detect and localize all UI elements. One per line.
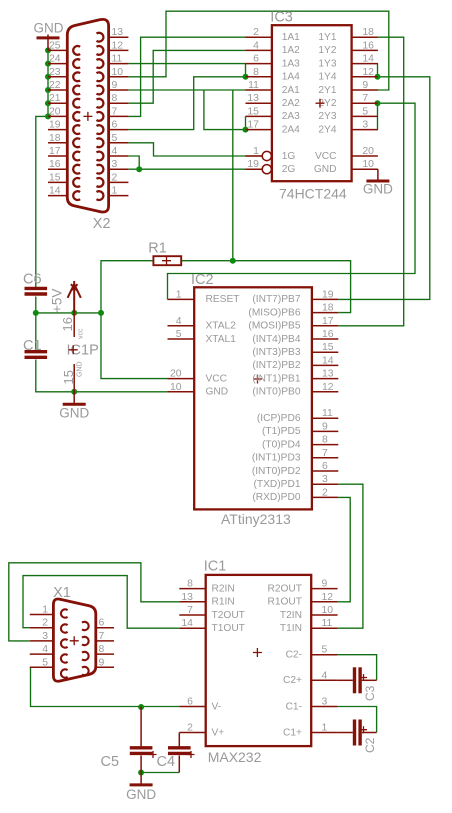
junction 1Y4 — [375, 74, 381, 80]
IC3 pin 3 2Y4 — [352, 129, 378, 131]
junction X2 p24 — [45, 61, 51, 67]
ground IC1P — [63, 403, 86, 406]
svg-text:(T1)PD5: (T1)PD5 — [262, 426, 301, 437]
X1 pin 3 — [30, 640, 54, 642]
svg-text:C2+: C2+ — [283, 675, 302, 686]
junction rail +5V — [71, 310, 77, 316]
IC3 pin 14 1Y3 — [352, 63, 378, 65]
X1 pin 8 — [96, 653, 114, 655]
X1 pin 2 — [30, 627, 54, 629]
X2 pin 19 — [48, 129, 67, 131]
svg-text:GND: GND — [59, 406, 89, 421]
IC1 pin 4 C2+ — [311, 679, 337, 681]
svg-text:C1+: C1+ — [283, 727, 302, 738]
X2 pin 21 — [48, 102, 67, 104]
svg-text:19: 19 — [49, 120, 61, 131]
svg-text:10: 10 — [362, 159, 374, 170]
svg-text:1A2: 1A2 — [282, 45, 300, 56]
connector X1 body — [53, 599, 95, 681]
IC2 pin 18 (MISO)PB6 — [312, 312, 338, 314]
C4 stem up to V+ — [178, 733, 180, 748]
svg-text:R2OUT: R2OUT — [267, 583, 302, 594]
C5 stem from V- — [140, 707, 142, 747]
C2 left stem — [338, 732, 353, 734]
svg-text:18: 18 — [322, 303, 334, 314]
svg-text:4: 4 — [112, 146, 118, 157]
IC2 pin 8 (T0)PD4 — [312, 444, 338, 446]
svg-text:20: 20 — [362, 146, 374, 157]
svg-text:1Y3: 1Y3 — [318, 58, 336, 69]
wire X2 pin7 to 1A1 — [128, 37, 245, 116]
IC1 pin 14 T1OUT — [179, 627, 205, 629]
svg-text:15: 15 — [61, 370, 76, 384]
IC2 pin 7 (INT1)PD3 — [312, 457, 338, 459]
IC U IC1 MAX232 body — [206, 575, 312, 746]
wire X2 pin20 to C6 — [36, 116, 48, 288]
origin cross X1 — [70, 636, 79, 645]
IC3 pin 11 2A1 — [246, 89, 272, 91]
wire R1 left to +5V rail — [101, 261, 153, 313]
svg-text:7: 7 — [362, 93, 368, 104]
svg-text:1Y4: 1Y4 — [318, 72, 336, 83]
svg-text:1: 1 — [42, 605, 48, 616]
X2 pin 9 — [109, 89, 129, 91]
wire X2 pin6 to 1A4 — [128, 77, 245, 130]
junction V- C5 — [138, 704, 144, 710]
svg-text:1G: 1G — [282, 151, 296, 162]
wire RESET 2Y2 to IC2 pin1 — [168, 103, 416, 299]
svg-text:R1IN: R1IN — [212, 597, 235, 608]
svg-text:11: 11 — [322, 618, 333, 629]
IC3 pin 2 1A1 — [246, 36, 272, 38]
IC3 pin 20 VCC — [352, 155, 378, 157]
svg-text:C1-: C1- — [286, 701, 302, 712]
svg-text:17: 17 — [49, 146, 61, 157]
X1 pin 9 — [96, 666, 114, 668]
svg-text:6: 6 — [322, 461, 328, 472]
C5 lower stem — [140, 756, 142, 773]
IC2 pin 9 (T1)PD5 — [312, 430, 338, 432]
wire VCC to IC2 pin20 — [101, 313, 168, 379]
IC2 pin 15 (INT3)PB3 — [312, 351, 338, 353]
C3 plus mark — [360, 674, 367, 681]
IC3 pin 7 2Y2 — [352, 102, 378, 104]
svg-text:IC2: IC2 — [191, 272, 214, 288]
connector X2 body — [67, 19, 108, 212]
svg-text:7: 7 — [322, 448, 328, 459]
svg-text:C3: C3 — [363, 685, 377, 701]
svg-text:13: 13 — [181, 592, 193, 603]
X1 pin 7 — [96, 640, 114, 642]
svg-text:+5V: +5V — [49, 289, 64, 313]
svg-text:X1: X1 — [53, 585, 71, 601]
svg-text:4: 4 — [322, 670, 328, 681]
IC1 pin 2 V+ — [179, 732, 205, 734]
svg-text:1Y1: 1Y1 — [318, 32, 336, 43]
X2 pin 12 — [109, 49, 129, 51]
svg-text:17: 17 — [247, 120, 259, 131]
svg-text:18: 18 — [362, 27, 374, 38]
svg-text:(ICP)PD6: (ICP)PD6 — [257, 413, 301, 424]
svg-text:IC1P: IC1P — [67, 343, 99, 359]
svg-text:X2: X2 — [93, 216, 111, 232]
svg-text:19: 19 — [322, 289, 334, 300]
origin cross IC3 — [316, 99, 325, 108]
svg-text:11: 11 — [248, 80, 259, 91]
junction 1A4 — [243, 74, 249, 80]
C3 left stem — [338, 679, 353, 681]
svg-text:9: 9 — [99, 657, 105, 668]
IC U IC2 ATtiny2313 body — [194, 287, 312, 509]
X2 pin 10 — [109, 76, 129, 78]
X2 pin 4 — [109, 155, 129, 157]
C4 plus mark — [188, 751, 195, 758]
origin cross IC1 — [253, 648, 262, 657]
svg-text:7: 7 — [112, 106, 118, 117]
svg-text:2: 2 — [253, 27, 259, 38]
IC1 pin 10 T2IN — [311, 614, 337, 616]
gnd pin X2 — [47, 35, 49, 51]
wire SCK 1Y4 to IC2 pin19 — [338, 77, 430, 300]
wire X2 pin3 to 2G — [128, 168, 261, 170]
origin cross R1 — [162, 256, 171, 265]
IC1 pin 8 R2IN — [179, 588, 205, 590]
junction 2G net — [136, 166, 142, 172]
IC1 pin 12 R1OUT — [311, 601, 337, 603]
IC U IC3 74HCT244 body — [272, 25, 352, 181]
wire TXD PD1 to T1IN — [338, 484, 363, 628]
svg-text:12: 12 — [322, 592, 334, 603]
ground bottom — [130, 783, 153, 786]
wire C3 to C2- loop — [338, 655, 377, 681]
svg-text:XTAL2: XTAL2 — [206, 321, 237, 332]
svg-text:14: 14 — [322, 355, 334, 366]
wire branch to 2A4 — [204, 90, 246, 130]
svg-text:(MOSI)PB5: (MOSI)PB5 — [248, 321, 300, 332]
IC2 pin 10 GND — [168, 391, 195, 393]
X1 pin 5 — [30, 666, 54, 668]
svg-text:2: 2 — [112, 172, 118, 183]
svg-text:16: 16 — [60, 317, 75, 331]
wire X2 pin10 over top to 2Y1 — [128, 11, 388, 90]
inverter bubble 1G — [262, 151, 271, 160]
IC2 pin 4 XTAL2 — [168, 325, 195, 327]
svg-text:(INT3)PB3: (INT3)PB3 — [252, 347, 300, 358]
capacitor C2 — [353, 720, 356, 746]
X2 pin 11 — [109, 63, 129, 65]
svg-text:3: 3 — [42, 631, 48, 642]
svg-text:12: 12 — [322, 382, 334, 393]
svg-text:2A1: 2A1 — [282, 85, 300, 96]
X2 pin 24 — [48, 63, 67, 65]
svg-text:13: 13 — [112, 27, 124, 38]
svg-text:20: 20 — [170, 369, 182, 380]
svg-text:11: 11 — [112, 54, 123, 65]
svg-text:23: 23 — [49, 67, 61, 78]
wire 1A3 to 1A4 tie — [245, 64, 247, 77]
svg-text:T1OUT: T1OUT — [212, 623, 245, 634]
svg-text:T2IN: T2IN — [280, 610, 302, 621]
junction X2 p22 — [45, 87, 51, 93]
svg-text:9: 9 — [322, 579, 328, 590]
svg-text:C6: C6 — [23, 272, 42, 288]
IC3 pin 9 2Y1 — [352, 89, 378, 91]
junction 2A4 — [243, 127, 249, 133]
IC1 pin 5 C2- — [311, 654, 337, 656]
resistor R1 — [153, 256, 181, 265]
IC1 pin 13 R1IN — [179, 601, 205, 603]
IC3 pin 17 2A4 — [246, 129, 272, 131]
inverter bubble 2G — [262, 165, 271, 174]
svg-text:2Y1: 2Y1 — [318, 85, 336, 96]
svg-text:(INT7)PB7: (INT7)PB7 — [252, 294, 300, 305]
X2 pin 1 — [109, 195, 129, 197]
ground IC3 — [366, 180, 389, 183]
IC3 pin 13 2A2 — [246, 102, 272, 104]
svg-text:2: 2 — [42, 618, 48, 629]
IC2 pin 17 (MOSI)PB5 — [312, 325, 338, 327]
svg-text:21: 21 — [49, 93, 61, 104]
wire RXD PD0 to R1OUT — [338, 497, 351, 601]
svg-text:2Y4: 2Y4 — [318, 124, 336, 135]
svg-text:8: 8 — [322, 435, 328, 446]
svg-text:5: 5 — [112, 133, 118, 144]
X1 pin 4 — [30, 653, 54, 655]
svg-text:R1OUT: R1OUT — [267, 597, 302, 608]
IC2 pin 16 (INT4)PB4 — [312, 338, 338, 340]
IC1P pin 15 GND — [73, 364, 75, 404]
IC1 pin 9 R2OUT — [311, 588, 337, 590]
svg-text:GND: GND — [126, 787, 156, 802]
junction X2 p20 — [45, 113, 51, 119]
wire X1 pin3 to R1IN — [9, 563, 180, 641]
IC2 pin 3 (TXD)PD1 — [312, 483, 338, 485]
X1 pin 6 — [96, 627, 114, 629]
svg-text:5: 5 — [176, 329, 182, 340]
X2 pin 6 — [109, 129, 129, 131]
junction gnd rail — [71, 389, 77, 395]
junction 2Y2 — [375, 100, 381, 106]
svg-text:2A2: 2A2 — [282, 98, 300, 109]
svg-text:MAX232: MAX232 — [208, 749, 262, 765]
wire C5/C4 gnd link — [141, 772, 179, 774]
capacitor C1 — [25, 350, 48, 353]
svg-text:VCC: VCC — [206, 373, 228, 384]
svg-text:(INT1)PD3: (INT1)PD3 — [252, 453, 301, 464]
svg-text:10: 10 — [170, 382, 182, 393]
X2 pin 7 — [109, 115, 129, 117]
svg-text:14: 14 — [181, 618, 193, 629]
svg-text:15: 15 — [247, 106, 259, 117]
IC1 pin 6 V- — [179, 706, 205, 708]
svg-text:14: 14 — [362, 54, 374, 65]
svg-text:GND: GND — [34, 21, 64, 36]
svg-text:19: 19 — [247, 159, 259, 170]
origin cross IC1P — [69, 345, 78, 354]
svg-text:3: 3 — [362, 120, 368, 131]
svg-text:(T0)PD4: (T0)PD4 — [262, 439, 301, 450]
svg-text:VCC: VCC — [315, 151, 337, 162]
IC1 pin 1 C1+ — [311, 732, 337, 734]
svg-text:IC3: IC3 — [270, 10, 293, 26]
IC3 gnd stem — [377, 169, 379, 181]
X2 pin 3 — [109, 168, 129, 170]
wire R1 right MISO net to IC2 pin18 — [181, 261, 350, 313]
svg-text:7: 7 — [99, 631, 105, 642]
X2 pin 18 — [48, 142, 67, 144]
svg-text:(INT0)PB0: (INT0)PB0 — [252, 387, 300, 398]
junction X2 p21 — [45, 100, 51, 106]
svg-text:4: 4 — [253, 40, 259, 51]
svg-text:5: 5 — [322, 645, 328, 656]
IC3 pin 16 1Y2 — [352, 49, 378, 51]
svg-text:(INT0)PD2: (INT0)PD2 — [252, 466, 301, 477]
junction rail right — [98, 310, 104, 316]
junction R1 net — [230, 258, 236, 264]
IC1 pin 3 C1- — [311, 706, 337, 708]
svg-text:25: 25 — [49, 40, 61, 51]
svg-text:V+: V+ — [212, 727, 225, 738]
origin cross IC2 — [253, 375, 262, 384]
svg-text:22: 22 — [49, 80, 61, 91]
wire C6 to +5V rail — [35, 297, 37, 313]
svg-text:13: 13 — [322, 369, 334, 380]
svg-text:10: 10 — [112, 67, 124, 78]
IC3 pin 6 1A3 — [246, 63, 272, 65]
svg-text:16: 16 — [49, 159, 61, 170]
wire rail to C1 — [35, 313, 37, 352]
svg-text:14: 14 — [49, 186, 61, 197]
C2 right stem — [362, 732, 377, 734]
svg-text:1Y2: 1Y2 — [318, 45, 336, 56]
svg-text:15: 15 — [49, 172, 61, 183]
wire X2 pin5 to 1G — [128, 143, 261, 156]
svg-text:8: 8 — [99, 644, 105, 655]
svg-text:(INT2)PB2: (INT2)PB2 — [252, 360, 300, 371]
wire 2Y2-2Y3-2Y4 tie — [377, 103, 379, 129]
X2 pin 13 — [109, 36, 129, 38]
IC2 pin 13 (INT1)PB1 — [312, 378, 338, 380]
svg-text:T2OUT: T2OUT — [212, 610, 245, 621]
X2 pin 22 — [48, 89, 67, 91]
svg-text:C2-: C2- — [286, 650, 302, 661]
svg-text:1A3: 1A3 — [282, 58, 300, 69]
svg-text:2G: 2G — [282, 164, 296, 175]
svg-text:13: 13 — [247, 93, 259, 104]
X2 pin 15 — [48, 181, 67, 183]
svg-text:R2IN: R2IN — [212, 583, 235, 594]
svg-text:1: 1 — [112, 186, 118, 197]
svg-text:1: 1 — [322, 723, 328, 734]
svg-text:4: 4 — [42, 644, 48, 655]
svg-text:3: 3 — [322, 697, 328, 708]
wire X1 pin2 to T1OUT — [23, 576, 179, 629]
svg-text:74HCT244: 74HCT244 — [279, 186, 347, 202]
IC2 pin 19 (INT7)PB7 — [312, 298, 338, 300]
svg-text:12: 12 — [112, 40, 124, 51]
svg-text:8: 8 — [253, 67, 259, 78]
junction rail C6 — [33, 310, 39, 316]
X2 pin 20 — [48, 115, 67, 117]
IC3 pin 1 1G — [246, 155, 263, 157]
wire MOSI 1Y1 to IC2 pin17 — [338, 37, 403, 326]
wire X2 pin4 jog to 2G net — [128, 156, 139, 169]
X1 contact arcs — [61, 609, 68, 617]
svg-text:(INT4)PB4: (INT4)PB4 — [252, 334, 300, 345]
capacitor C4 — [168, 746, 191, 749]
svg-text:16: 16 — [322, 329, 334, 340]
wire C2 to C1- loop — [338, 707, 377, 733]
svg-text:2A4: 2A4 — [282, 124, 300, 135]
svg-text:ATtiny2313: ATtiny2313 — [221, 511, 291, 527]
svg-text:vcc: vcc — [77, 328, 84, 339]
IC1P pin 16 VCC — [73, 313, 75, 337]
C5 plus mark — [150, 751, 157, 758]
svg-text:24: 24 — [49, 54, 61, 65]
svg-text:(TXD)PD1: (TXD)PD1 — [254, 479, 301, 490]
svg-text:6: 6 — [99, 618, 105, 629]
X2 pin 8 — [109, 102, 129, 104]
svg-text:RESET: RESET — [206, 294, 240, 305]
C4 stem down — [178, 756, 180, 773]
IC1 pin 7 T2OUT — [179, 614, 205, 616]
svg-text:6: 6 — [112, 120, 118, 131]
IC2 pin 11 (ICP)PD6 — [312, 417, 338, 419]
svg-text:15: 15 — [322, 342, 334, 353]
IC3 pin 8 1A4 — [246, 76, 272, 78]
wire X1 pin5 to V- — [31, 667, 180, 706]
IC3 pin 12 1Y4 — [352, 76, 378, 78]
svg-text:1: 1 — [253, 146, 259, 157]
wire 2A4 to 2A3 tie — [245, 116, 247, 129]
svg-text:1A1: 1A1 — [282, 32, 300, 43]
IC2 pin 20 VCC — [168, 378, 195, 380]
ground top-left — [37, 36, 60, 39]
svg-text:17: 17 — [322, 316, 334, 327]
svg-text:18: 18 — [49, 133, 61, 144]
svg-text:8: 8 — [112, 93, 118, 104]
svg-text:8: 8 — [187, 579, 193, 590]
wire MISO branch up to 2A1 — [232, 90, 234, 261]
svg-text:XTAL1: XTAL1 — [206, 334, 237, 345]
svg-text:9: 9 — [362, 80, 368, 91]
IC2 pin 6 (INT0)PD2 — [312, 470, 338, 472]
IC3 pin 19 2G — [246, 168, 263, 170]
svg-text:2: 2 — [322, 487, 328, 498]
svg-text:(INT1)PB1: (INT1)PB1 — [252, 373, 300, 384]
junction X2 p23 — [45, 74, 51, 80]
svg-text:10: 10 — [322, 605, 334, 616]
svg-text:C4: C4 — [157, 754, 176, 770]
capacitor C3 — [353, 667, 356, 693]
svg-text:GND: GND — [363, 182, 393, 197]
svg-text:GND: GND — [206, 387, 229, 398]
wire X2 pin9 row to 2A1 — [128, 89, 245, 91]
C2 plus mark — [360, 726, 367, 733]
svg-text:12: 12 — [362, 67, 374, 78]
origin cross X2 — [83, 112, 92, 121]
svg-text:3: 3 — [322, 474, 328, 485]
svg-text:9: 9 — [112, 80, 118, 91]
svg-text:C2: C2 — [363, 737, 377, 753]
svg-text:C5: C5 — [101, 754, 120, 770]
svg-text:GND: GND — [314, 164, 337, 175]
svg-text:6: 6 — [253, 54, 259, 65]
svg-text:(RXD)PD0: (RXD)PD0 — [252, 492, 300, 503]
svg-text:2: 2 — [187, 723, 193, 734]
IC2 pin 12 (INT0)PB0 — [312, 391, 338, 393]
junction gnd C5/C4 — [138, 770, 144, 776]
